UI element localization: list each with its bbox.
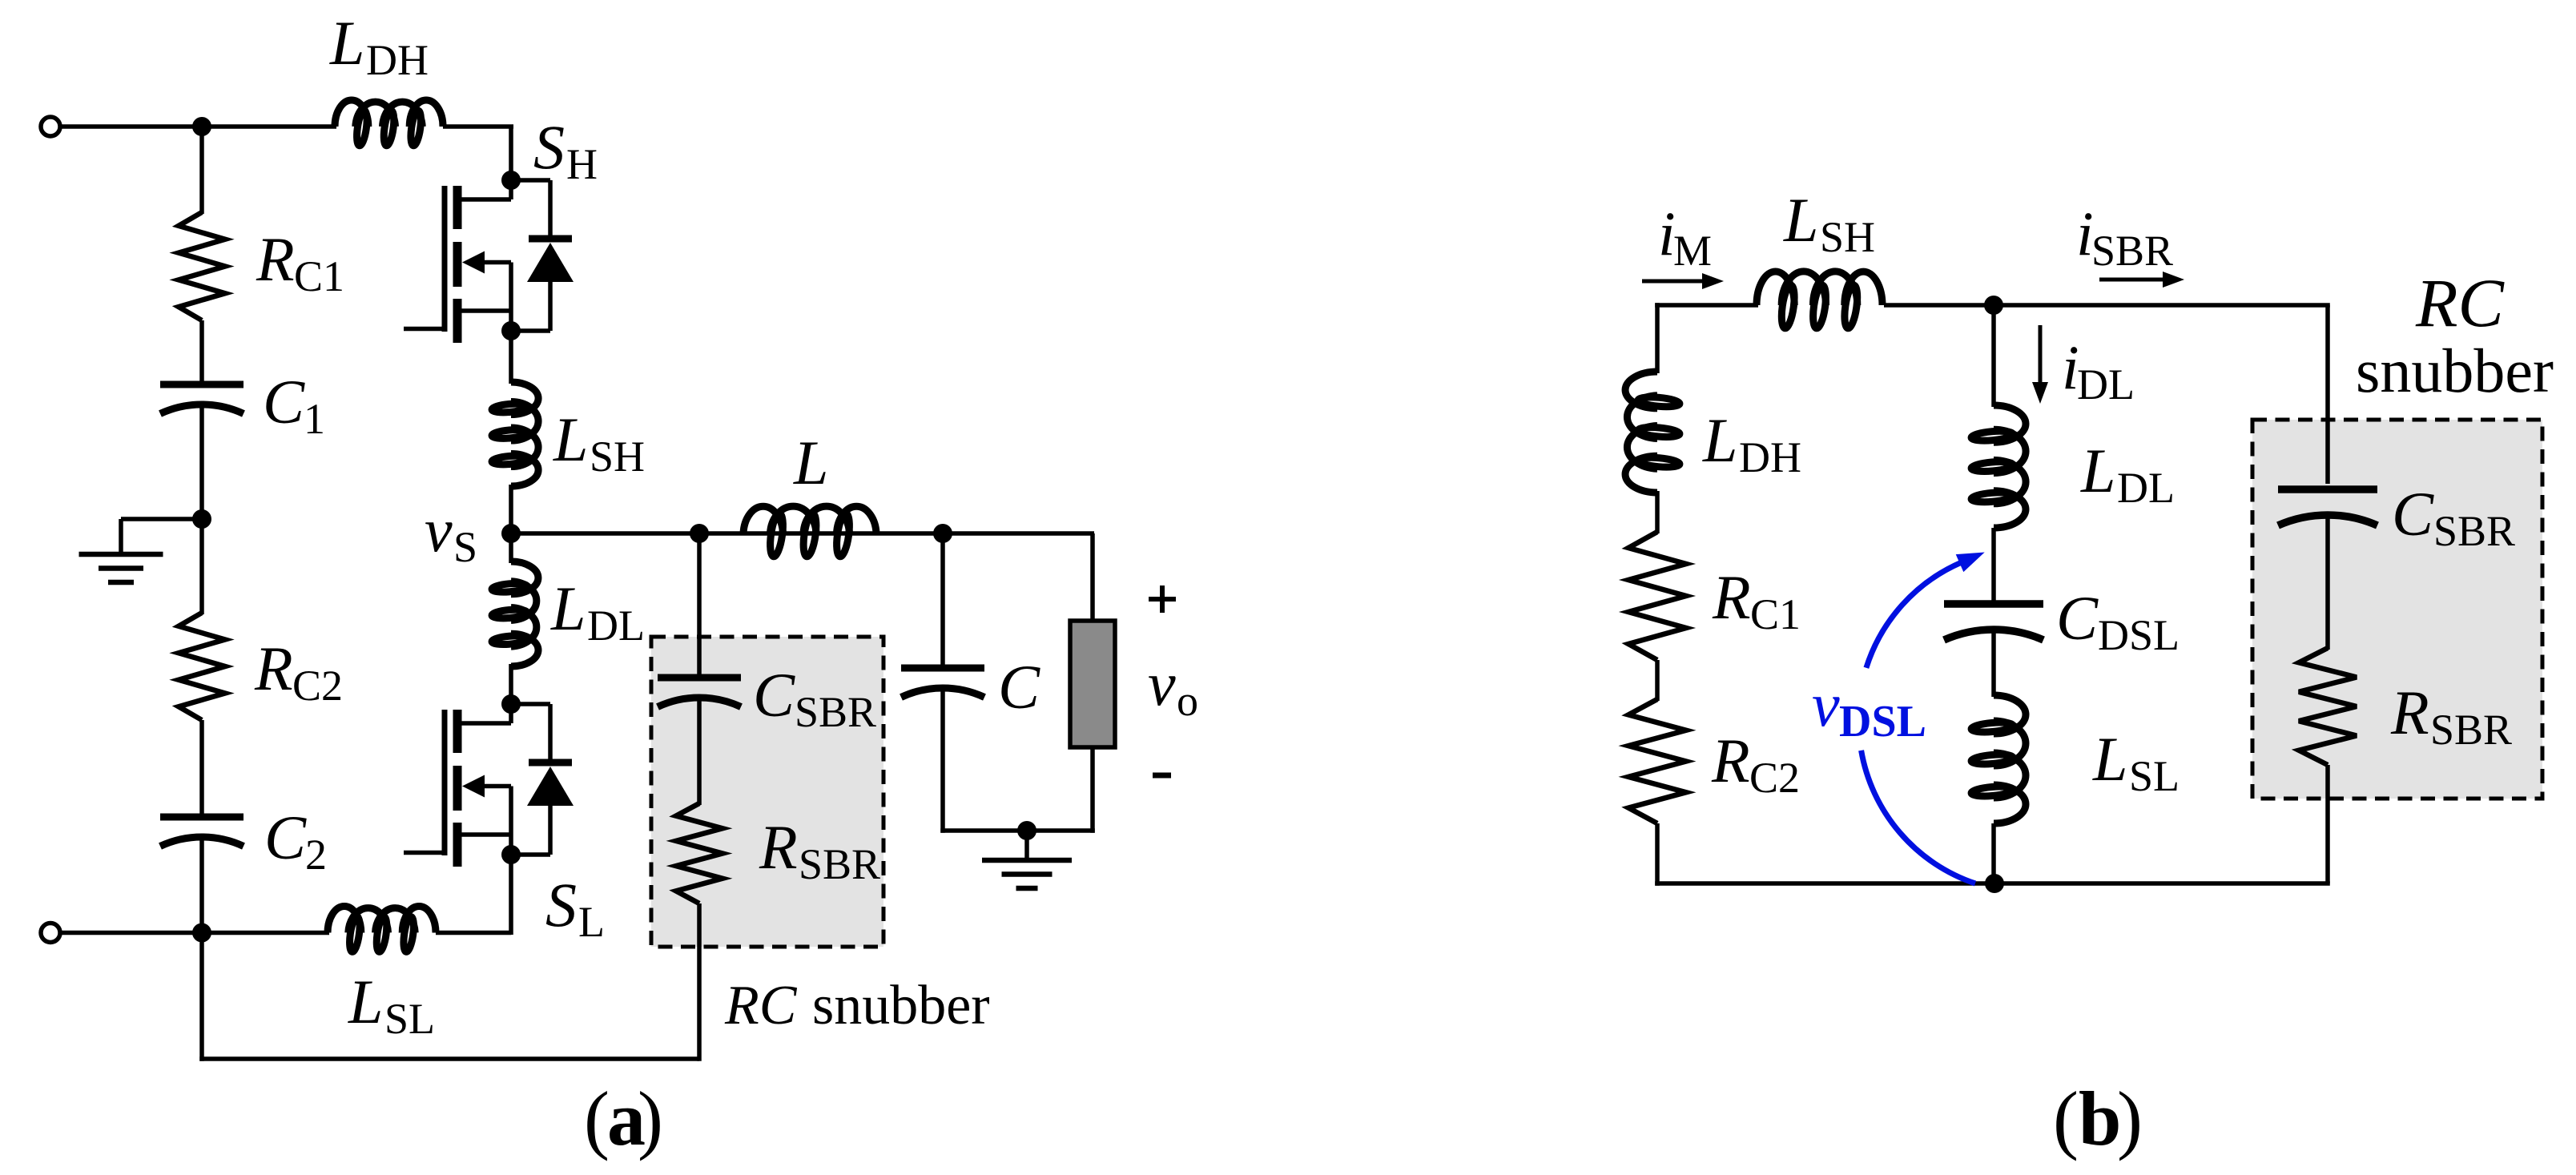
svg-text:SL: SL [384, 995, 435, 1043]
label R_C1 [256, 224, 344, 300]
svg-text:DH: DH [1739, 433, 1801, 481]
caption (b) [2053, 1076, 2143, 1161]
label L [793, 428, 828, 497]
svg-text:v: v [1812, 670, 1840, 739]
wire R_SBR down to bottom rail [697, 903, 702, 1061]
caption (a) [584, 1076, 663, 1161]
label RC (b) [2415, 264, 2506, 341]
label S_L [545, 870, 605, 946]
svg-text:S: S [453, 523, 477, 571]
svg-text:S: S [545, 870, 577, 940]
svg-text:R: R [256, 224, 295, 294]
wire bottom rail right segment (b) [1994, 881, 2330, 886]
label v_o [1148, 649, 1198, 725]
inductor L_SL coil (b) [1971, 695, 2026, 823]
voltage arc v_DSL (blue) [1862, 553, 1985, 884]
wire output corner down to load [1090, 533, 1095, 622]
capacitor C_SBR (b) [2278, 489, 2377, 525]
transistor S_H (MOSFET with body diode) [404, 171, 574, 343]
wire L_SL to bottom rail (b) [1991, 823, 1996, 883]
label i_DL [2062, 332, 2135, 408]
svg-text:L: L [553, 404, 588, 474]
node C tap dot [933, 524, 952, 543]
svg-text:o: o [1177, 677, 1198, 725]
svg-text:R: R [759, 812, 798, 882]
node junction dot (b top) [1984, 296, 2003, 315]
node snubber tap dot [690, 524, 709, 543]
svg-text:L: L [1702, 405, 1737, 475]
label R_SBR (b) [2390, 678, 2512, 754]
plus sign output [1149, 585, 1176, 613]
label R_SBR [759, 812, 880, 888]
RC snubber box (a) [651, 637, 883, 947]
minus sign output [1153, 773, 1171, 779]
label L_SH (b) [1783, 185, 1875, 261]
svg-text:DSL: DSL [2098, 611, 2180, 659]
label C1 [263, 367, 325, 443]
svg-text:v: v [425, 495, 453, 565]
wire L_DH to R_C1 (b) [1655, 491, 1660, 533]
arrow i_DL [2032, 325, 2048, 404]
ground symbol (output side) [982, 831, 1072, 888]
svg-text:H: H [566, 140, 598, 188]
svg-text:C: C [2056, 583, 2099, 653]
resistor R_C1 (b) [1628, 532, 1686, 660]
node ground tap dot [192, 509, 211, 529]
svg-text:b: b [2079, 1076, 2121, 1161]
wire L_DH to S_H drain [443, 127, 513, 183]
svg-text:M: M [1673, 227, 1712, 275]
svg-text:C: C [2392, 479, 2434, 549]
label snubber (b) [2356, 336, 2554, 405]
inductor L_DH coil [335, 100, 443, 147]
label L_SL [348, 967, 435, 1043]
inductor L_DL coil (b) [1971, 405, 2026, 528]
svg-text:SL: SL [2129, 752, 2180, 800]
wire C1 to ground node [199, 403, 204, 614]
label L_DH (b) [1702, 405, 1801, 481]
wire left bottom corner (b) [1655, 823, 1994, 886]
label C2 [264, 803, 327, 879]
svg-text:R: R [2390, 678, 2429, 747]
inductor L_DH coil (b) [1625, 372, 1680, 493]
svg-text:C: C [263, 367, 305, 437]
label R_C2 (b) [1711, 726, 1800, 802]
capacitor C1 [160, 384, 244, 414]
svg-text:DSL: DSL [1839, 697, 1926, 746]
wire load bottom to ground rail [1090, 747, 1095, 833]
svg-text:snubber: snubber [2356, 336, 2554, 405]
wire bottom rail left segment [61, 931, 330, 936]
transistor S_L (MOSFET with body diode) [404, 694, 574, 867]
svg-text:SH: SH [590, 433, 645, 481]
svg-text:): ) [2117, 1076, 2143, 1161]
inductor L coil (output filter) [743, 506, 876, 557]
label R_C2 [254, 634, 343, 710]
wire left branch J1 to R_C1 [199, 127, 204, 214]
svg-text:2: 2 [305, 831, 327, 879]
node junction dot (b bottom) [1985, 874, 2004, 893]
RC snubber box (b) [2252, 420, 2542, 799]
wire C_SBR to R_SBR [697, 698, 702, 805]
svg-text:L: L [793, 428, 828, 497]
wire L_DL to C_DSL (b) [1991, 528, 1996, 601]
wire C_DSL to L_SL (b) [1991, 628, 1996, 697]
svg-text:1: 1 [304, 395, 325, 443]
wire top rail (b) [1655, 303, 2330, 305]
svg-text:L: L [329, 8, 364, 78]
wire right branch (b) down to C_SBR [2325, 305, 2330, 484]
svg-text:DL: DL [2077, 360, 2135, 408]
svg-text:SH: SH [1820, 213, 1875, 261]
label C [998, 652, 1040, 722]
resistor R_SBR (b) [2299, 648, 2357, 765]
wire snubber tap down to C_SBR [697, 533, 702, 675]
wire top rail from terminal to L_DH [61, 124, 337, 129]
capacitor C [901, 668, 984, 698]
capacitor C2 [160, 817, 244, 847]
inductor L_SH coil [492, 331, 538, 535]
label L_SL (b) [2092, 724, 2180, 800]
svg-text:C2: C2 [1749, 754, 1800, 802]
label i_M [1658, 199, 1712, 275]
capacitor C_DSL [1944, 604, 2043, 640]
capacitor C_SBR [658, 678, 741, 707]
resistor R_C1 [179, 212, 225, 320]
svg-text:L: L [2092, 724, 2127, 794]
wire R_SBR to bottom rail (b) [2325, 765, 2330, 883]
label RC snubber (a) [724, 975, 990, 1036]
svg-text:DH: DH [366, 36, 429, 84]
label L_DL (b) [2080, 436, 2175, 512]
label v_S [425, 495, 477, 571]
label R_C1 (b) [1712, 562, 1801, 638]
load resistor v_o (rect) [1070, 621, 1115, 747]
wire J2 down to snubber return rail [199, 933, 699, 1061]
svg-text:v: v [1148, 649, 1176, 718]
label L_DL [550, 573, 645, 650]
svg-text:RC: RC [2415, 264, 2506, 341]
svg-text:L: L [2080, 436, 2115, 505]
wire left branch (b) down to L_DH [1655, 305, 1660, 373]
svg-text:SBR: SBR [795, 688, 876, 736]
wire v_S node to output corner [511, 531, 1094, 536]
label S_H [533, 112, 598, 188]
wire R_C1 to C1 [199, 320, 204, 382]
svg-text:SBR: SBR [2430, 706, 2512, 754]
label C_DSL [2056, 583, 2180, 659]
node output ground dot [1017, 821, 1036, 840]
svg-text:DL: DL [2117, 464, 2175, 512]
wire C to output ground rail [940, 688, 1095, 833]
node junction dot bottom-left [192, 924, 211, 943]
svg-text:DL: DL [587, 602, 645, 650]
label L_SH [553, 404, 645, 481]
svg-text:C1: C1 [294, 252, 344, 300]
svg-text:L: L [1783, 185, 1818, 255]
label C_SBR (b) [2392, 479, 2515, 555]
svg-text:C: C [998, 652, 1040, 722]
label L_DH [329, 8, 429, 84]
label i_SBR [2076, 199, 2173, 275]
resistor R_C2 [179, 613, 225, 720]
svg-text:SBR: SBR [2091, 227, 2173, 275]
svg-text:(: ( [584, 1076, 610, 1161]
svg-text:C: C [264, 803, 307, 872]
node v_S junction dot [501, 524, 521, 543]
resistor R_SBR [676, 803, 722, 903]
svg-text:R: R [254, 634, 293, 703]
node junction dot top-left [192, 117, 211, 136]
svg-text:C1: C1 [1750, 590, 1801, 638]
svg-text:L: L [578, 898, 605, 946]
resistor R_C2 (b) [1628, 699, 1686, 823]
wire middle branch top (b) [1991, 305, 1996, 407]
wire C_SBR to R_SBR (b) [2325, 513, 2330, 650]
svg-text:snubber: snubber [812, 975, 990, 1036]
wire S_L source down to bottom rail [436, 855, 511, 935]
wire R_C2 to C2 [199, 720, 204, 815]
wire C branch down [940, 533, 945, 666]
svg-text:RC: RC [724, 975, 798, 1036]
arrow i_SBR [2099, 272, 2184, 288]
wire to ground symbol [121, 519, 202, 554]
svg-text:): ) [638, 1076, 663, 1161]
svg-text:SBR: SBR [799, 840, 880, 888]
label C_SBR [753, 660, 876, 736]
inductor L_DL coil [492, 533, 538, 706]
svg-text:S: S [533, 112, 565, 182]
ground symbol (input side) [79, 554, 163, 582]
inductor L_SL coil [328, 907, 436, 953]
svg-text:R: R [1711, 726, 1750, 795]
svg-text:R: R [1712, 562, 1751, 632]
wire R_C1 to R_C2 (b) [1655, 660, 1660, 701]
label v_DSL (blue) [1812, 670, 1926, 746]
input terminal (-) bottom-left [41, 924, 60, 943]
svg-text:L: L [550, 573, 586, 643]
wire C2 to bottom terminal node [199, 835, 204, 933]
input terminal (+) top-left [41, 117, 60, 136]
svg-text:L: L [348, 967, 383, 1036]
inductor L_SH coil (b) [1757, 272, 1882, 329]
svg-text:(: ( [2053, 1076, 2079, 1161]
svg-text:SBR: SBR [2433, 507, 2515, 555]
svg-text:C: C [753, 660, 795, 730]
arrow i_M [1642, 273, 1724, 289]
svg-text:C2: C2 [292, 662, 343, 710]
